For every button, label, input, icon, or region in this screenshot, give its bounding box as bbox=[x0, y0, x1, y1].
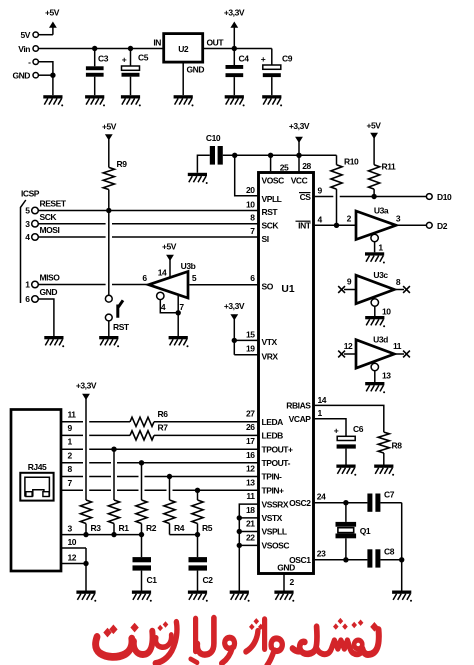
wire 5V terminal to +5V arrow bbox=[38, 34, 53, 36]
svg-text:+5V: +5V bbox=[45, 8, 60, 18]
ground C1 bbox=[132, 591, 152, 602]
svg-text:OSC2: OSC2 bbox=[289, 498, 311, 508]
wire RJ45 pin 3 center-tap line bbox=[61, 534, 142, 536]
ground input GND bbox=[43, 95, 63, 106]
wire U3a output to D2 bbox=[396, 224, 426, 226]
svg-text:14: 14 bbox=[158, 267, 167, 277]
U1 INT label with overline bbox=[296, 221, 312, 231]
node +3,3V at VTX/VRX bbox=[224, 301, 245, 355]
node 5V terminal bbox=[21, 30, 39, 40]
wire VPLL drop (pin 20) bbox=[235, 155, 259, 195]
ground crystal section bbox=[392, 591, 412, 602]
resistor R3 bbox=[80, 500, 101, 535]
node Vin terminal bbox=[18, 44, 38, 54]
junction OSC1/Q1 bbox=[343, 557, 348, 562]
svg-text:SCK: SCK bbox=[262, 220, 280, 230]
node +5V above R11 bbox=[366, 121, 381, 165]
no-connect U3d input bbox=[338, 351, 345, 358]
svg-text:27: 27 bbox=[246, 409, 255, 419]
svg-text:GND: GND bbox=[187, 64, 205, 74]
IC U1 (ENC28J60) body bbox=[259, 173, 314, 574]
svg-text:RST: RST bbox=[262, 207, 279, 217]
svg-text:+5V: +5V bbox=[162, 242, 177, 252]
U1 right pin labels bbox=[286, 176, 311, 565]
junction rail/VPLL bbox=[232, 153, 237, 158]
svg-text:3: 3 bbox=[25, 219, 30, 229]
svg-text:14: 14 bbox=[318, 395, 327, 405]
svg-text:C9: C9 bbox=[282, 53, 293, 63]
svg-text:VSTX: VSTX bbox=[262, 513, 283, 523]
svg-text:3: 3 bbox=[396, 214, 401, 224]
svg-text:R4: R4 bbox=[174, 523, 185, 533]
wire ICSP GND to ground bbox=[38, 299, 54, 336]
op-amp buffer U3c (unused) bbox=[344, 270, 404, 304]
svg-text:SI: SI bbox=[262, 234, 269, 244]
svg-text:+: + bbox=[122, 54, 127, 64]
svg-text:C6: C6 bbox=[353, 424, 364, 434]
wire VSOSC stub bbox=[239, 544, 258, 546]
capacitor C1 bbox=[133, 535, 158, 591]
svg-text:11: 11 bbox=[393, 341, 402, 351]
junction Vin/C5 bbox=[128, 46, 133, 51]
capacitor C5 (electrolytic) bbox=[122, 49, 149, 96]
connector ICSP bracket bbox=[21, 189, 40, 304]
svg-text:R8: R8 bbox=[392, 441, 403, 451]
resistor R9 bbox=[103, 159, 127, 190]
svg-text:23: 23 bbox=[317, 549, 326, 559]
svg-text:D2: D2 bbox=[437, 221, 448, 231]
svg-text:18: 18 bbox=[246, 505, 255, 515]
svg-text:C10: C10 bbox=[206, 133, 221, 143]
wire U3d OE to ground bbox=[375, 371, 391, 383]
no-connect U3c input bbox=[338, 286, 345, 293]
svg-text:8: 8 bbox=[250, 213, 255, 223]
pin bubble U3b OE (pin 4) bbox=[157, 292, 164, 299]
svg-text:+5V: +5V bbox=[102, 122, 117, 132]
wire OSC2 row bbox=[315, 502, 368, 504]
svg-text:7: 7 bbox=[250, 226, 255, 236]
ground U3d bbox=[365, 382, 385, 393]
svg-text:+5V: +5V bbox=[366, 121, 381, 131]
svg-text:2: 2 bbox=[290, 577, 295, 587]
capacitor C3 bbox=[86, 49, 109, 96]
ground VSS bus bbox=[230, 591, 250, 602]
svg-text:4: 4 bbox=[318, 214, 323, 224]
junction pin3/R2/C1 bbox=[139, 532, 144, 537]
node D2 terminal bbox=[426, 221, 447, 231]
op-amp buffer U3a bbox=[347, 206, 401, 240]
crystal Q1 bbox=[336, 503, 371, 560]
svg-text:SO: SO bbox=[262, 281, 274, 291]
svg-text:GND: GND bbox=[277, 563, 295, 573]
node ICSP pin 3 SCK bbox=[25, 212, 57, 229]
resistor R2 bbox=[136, 463, 157, 535]
svg-text:10: 10 bbox=[246, 199, 255, 209]
svg-text:22: 22 bbox=[246, 532, 255, 542]
wire VCAP to C6 bbox=[315, 419, 346, 437]
svg-text:5V: 5V bbox=[21, 30, 31, 40]
svg-text:VCC: VCC bbox=[291, 176, 308, 186]
U1 GND bottom label bbox=[277, 563, 295, 573]
svg-text:5: 5 bbox=[25, 206, 30, 216]
ground C3 bbox=[85, 95, 105, 106]
junction R11/D10 line bbox=[371, 194, 376, 199]
node +5V top-left power label bbox=[45, 8, 60, 35]
U1 right pin numbers bbox=[317, 186, 327, 559]
svg-text:6: 6 bbox=[250, 273, 255, 283]
svg-text:VOSC: VOSC bbox=[262, 176, 285, 186]
push button RST bbox=[105, 295, 130, 332]
junction R5/C2 bbox=[195, 532, 200, 537]
resistor R6 bbox=[130, 409, 168, 427]
resistor R11 bbox=[369, 162, 396, 197]
svg-text:4: 4 bbox=[25, 232, 30, 242]
ground U3c bbox=[365, 316, 385, 327]
svg-text:IN: IN bbox=[153, 38, 161, 48]
svg-text:VSPLL: VSPLL bbox=[262, 527, 287, 537]
wire R4-R5 tap line bbox=[170, 534, 198, 536]
svg-text:8: 8 bbox=[396, 277, 401, 287]
svg-text:R10: R10 bbox=[344, 157, 359, 167]
svg-text:VPLL: VPLL bbox=[262, 194, 282, 204]
U1 designator bbox=[281, 284, 294, 295]
svg-text:19: 19 bbox=[246, 343, 255, 353]
wire U3b output to U1 SO bbox=[189, 284, 258, 286]
svg-text:R7: R7 bbox=[158, 423, 169, 433]
svg-text:U2: U2 bbox=[178, 44, 189, 54]
pin bubble U3d OE (pin 13) bbox=[371, 363, 378, 370]
wire OSC1 row bbox=[315, 559, 368, 561]
svg-text:U1: U1 bbox=[281, 284, 294, 295]
junction Vin/C3 bbox=[92, 46, 97, 51]
node +3,3V top bbox=[224, 8, 245, 49]
pin bubble U3a OE (pin 1) bbox=[371, 234, 378, 241]
junction R9/RESET bbox=[106, 208, 111, 213]
wire RBIAS to R8 bbox=[315, 405, 384, 432]
wire U3a OE to ground bbox=[375, 242, 384, 253]
svg-text:VTX: VTX bbox=[262, 337, 278, 347]
wire U2 GND to ground bbox=[183, 62, 204, 95]
U1 CS label with overline bbox=[299, 192, 311, 202]
ground U3a bbox=[365, 252, 385, 263]
wire crystal branch to ground bbox=[401, 560, 403, 591]
wire button to ground bbox=[108, 321, 110, 336]
svg-text:1: 1 bbox=[68, 437, 73, 447]
node minus terminal bbox=[28, 57, 38, 67]
svg-text:SCK: SCK bbox=[40, 212, 58, 222]
resistor R8 bbox=[378, 432, 402, 464]
svg-text:VSSRX: VSSRX bbox=[262, 499, 289, 509]
svg-text:10: 10 bbox=[68, 537, 77, 547]
resistor R1 bbox=[108, 449, 129, 534]
wire VTX stub bbox=[234, 339, 258, 341]
wire MOSI/SI line (hops R9 vertical) bbox=[38, 236, 105, 238]
ground RJ45 shield bbox=[76, 591, 96, 602]
ground C10 bbox=[188, 173, 208, 184]
svg-text:28: 28 bbox=[302, 161, 311, 171]
svg-text:1: 1 bbox=[25, 280, 30, 290]
svg-text:VCAP: VCAP bbox=[289, 414, 312, 424]
capacitor C4 bbox=[226, 49, 250, 96]
svg-text:13: 13 bbox=[382, 371, 391, 381]
junction +3.3V/VTX bbox=[232, 338, 237, 343]
RJ45 jack icon bbox=[20, 473, 53, 501]
capacitor C7 bbox=[367, 490, 401, 512]
wire INT to U3a input bbox=[315, 224, 356, 226]
svg-text:12: 12 bbox=[68, 553, 77, 563]
resistor R7 bbox=[130, 423, 168, 440]
svg-text:17: 17 bbox=[246, 436, 255, 446]
wire LEDB row with R7 bbox=[61, 434, 83, 436]
wire TPIN- row bbox=[61, 476, 83, 478]
wire LEDA row with R6 bbox=[61, 421, 83, 423]
svg-text:TPOUT-: TPOUT- bbox=[262, 458, 291, 468]
U1 top pin labels bbox=[280, 161, 312, 172]
op-amp buffer U3b (74x125 gate, output pin 6 left) bbox=[142, 261, 197, 298]
ground C4 bbox=[225, 95, 245, 106]
svg-text:4: 4 bbox=[161, 302, 166, 312]
junction VSOSC/bus bbox=[237, 543, 242, 548]
wire TPIN+ row bbox=[61, 489, 83, 491]
svg-text:C2: C2 bbox=[203, 575, 214, 585]
svg-text:C7: C7 bbox=[384, 490, 395, 500]
svg-text:VRX: VRX bbox=[262, 352, 279, 362]
svg-text:12: 12 bbox=[246, 464, 255, 474]
wire RESET junction down to push button bbox=[108, 211, 110, 296]
wire VRX stub bbox=[234, 354, 258, 356]
junction C8/ground branch bbox=[399, 557, 404, 562]
capacitor C9 (electrolytic) bbox=[261, 49, 293, 96]
wire GND terminal to ground bbox=[38, 74, 53, 76]
svg-text:7: 7 bbox=[179, 302, 184, 312]
svg-text:RESET: RESET bbox=[40, 199, 67, 209]
no-connect U3d output bbox=[403, 351, 410, 358]
capacitor C6 (electrolytic) bbox=[334, 424, 364, 465]
svg-text:10: 10 bbox=[382, 307, 391, 317]
wire MISO line to U3b output (hops button vertical) bbox=[38, 284, 105, 286]
wire C7 right down to C8 bbox=[401, 503, 403, 560]
wire VSSRX stub bbox=[239, 504, 258, 590]
capacitor C8 bbox=[367, 547, 401, 568]
svg-text:R6: R6 bbox=[158, 409, 169, 419]
svg-text:RJ45: RJ45 bbox=[28, 462, 47, 472]
svg-text:+: + bbox=[261, 54, 266, 64]
svg-text:U3a: U3a bbox=[374, 206, 389, 216]
svg-text:9: 9 bbox=[318, 186, 323, 196]
svg-text:C1: C1 bbox=[147, 575, 158, 585]
svg-text:LEDA: LEDA bbox=[262, 417, 284, 427]
svg-text:R2: R2 bbox=[146, 523, 157, 533]
svg-text:1: 1 bbox=[318, 408, 323, 418]
junction OUT/C4 bbox=[232, 46, 237, 51]
svg-text:+3,3V: +3,3V bbox=[224, 8, 245, 18]
junction rail/pin25 bbox=[268, 153, 273, 158]
resistor R10 bbox=[331, 155, 359, 225]
RJ45 pin numbers bbox=[68, 409, 77, 562]
wire CS to D10 (hops R10 vertical) bbox=[315, 196, 334, 198]
wire SCK line (hops R9 vertical) bbox=[38, 223, 105, 225]
svg-text:D10: D10 bbox=[437, 192, 452, 202]
junction TPIN-/R4 bbox=[167, 474, 172, 479]
junction pin3/R1 bbox=[111, 532, 116, 537]
svg-text:R3: R3 bbox=[91, 523, 102, 533]
svg-text:C4: C4 bbox=[239, 53, 250, 63]
svg-text:9: 9 bbox=[68, 423, 73, 433]
svg-text:RST: RST bbox=[113, 322, 130, 332]
op-amp buffer U3d (unused) bbox=[344, 335, 404, 369]
svg-text:U3c: U3c bbox=[373, 270, 388, 280]
node ICSP pin 1 MISO bbox=[25, 273, 60, 290]
svg-text:25: 25 bbox=[280, 162, 289, 172]
resistor R5 bbox=[192, 490, 213, 534]
svg-text:+3,3V: +3,3V bbox=[76, 381, 97, 391]
connector RJ45 body bbox=[11, 410, 61, 572]
ground U2 bbox=[174, 95, 194, 106]
svg-text:U3b: U3b bbox=[181, 261, 196, 271]
svg-text:CS: CS bbox=[300, 192, 312, 202]
svg-text:Q1: Q1 bbox=[360, 526, 371, 536]
junction TPIN+/R5 bbox=[195, 488, 200, 493]
svg-text:1: 1 bbox=[378, 243, 383, 253]
svg-text:OUT: OUT bbox=[207, 38, 225, 48]
svg-text:MISO: MISO bbox=[40, 273, 61, 283]
RJ45 label bbox=[28, 462, 47, 472]
wire RJ45 pin 10/12 to ground bbox=[61, 547, 86, 549]
node ICSP pin 5 RESET bbox=[25, 199, 67, 216]
svg-text:13: 13 bbox=[246, 477, 255, 487]
svg-text:R11: R11 bbox=[382, 162, 396, 172]
ground R8 bbox=[374, 465, 394, 476]
junction VSTX/bus bbox=[237, 515, 242, 520]
svg-text:GND: GND bbox=[12, 71, 30, 81]
svg-text:3: 3 bbox=[68, 524, 73, 534]
junction VSPLL/bus bbox=[237, 529, 242, 534]
wire +3.3V rail above U1 bbox=[223, 154, 337, 156]
svg-text:GND: GND bbox=[40, 287, 58, 297]
svg-text:R5: R5 bbox=[202, 523, 213, 533]
svg-text:TPIN-: TPIN- bbox=[262, 472, 283, 482]
svg-text:ICSP: ICSP bbox=[21, 189, 40, 199]
svg-text:TPOUT+: TPOUT+ bbox=[262, 444, 294, 454]
ground ICSP GND bbox=[44, 336, 64, 347]
ground U3b bbox=[169, 336, 189, 347]
svg-text:6: 6 bbox=[25, 294, 30, 304]
node +5V above U3b bbox=[162, 242, 177, 278]
svg-text:24: 24 bbox=[317, 492, 326, 502]
node GND terminal bbox=[12, 71, 38, 81]
capacitor C10 bbox=[197, 133, 222, 173]
svg-text:9: 9 bbox=[347, 277, 352, 287]
svg-text:+3,3V: +3,3V bbox=[289, 121, 310, 131]
wire TPOUT- row bbox=[61, 462, 83, 464]
svg-text:R1: R1 bbox=[119, 523, 130, 533]
svg-text:C3: C3 bbox=[98, 53, 109, 63]
no-connect U3c output bbox=[403, 286, 410, 293]
wire U3c OE to ground bbox=[375, 306, 391, 316]
wire VSPLL stub bbox=[239, 531, 258, 533]
svg-text:12: 12 bbox=[344, 341, 353, 351]
wire R9 to RESET line bbox=[108, 190, 110, 211]
wire VSTX stub bbox=[239, 517, 258, 519]
svg-text:26: 26 bbox=[246, 422, 255, 432]
svg-text:7: 7 bbox=[68, 478, 73, 488]
svg-text:MOSI: MOSI bbox=[40, 225, 60, 235]
svg-text:+3,3V: +3,3V bbox=[224, 301, 245, 311]
wire RESET line bbox=[38, 210, 258, 212]
svg-text:20: 20 bbox=[246, 185, 255, 195]
svg-text:5: 5 bbox=[192, 273, 197, 283]
node +5V above R9 bbox=[102, 122, 117, 168]
junction pin3/R3 bbox=[83, 532, 88, 537]
regulator U2 bbox=[153, 34, 224, 63]
svg-text:INT: INT bbox=[298, 221, 312, 231]
svg-text:C5: C5 bbox=[138, 52, 149, 62]
node +3,3V above RJ45 network bbox=[76, 381, 97, 501]
capacitor C2 bbox=[189, 535, 214, 591]
svg-text:6: 6 bbox=[142, 273, 147, 283]
svg-text:2: 2 bbox=[68, 450, 73, 460]
svg-text:R9: R9 bbox=[117, 159, 128, 169]
pin bubble U3c OE (pin 10) bbox=[371, 299, 378, 306]
wire pin 25 bbox=[270, 155, 272, 172]
svg-text:15: 15 bbox=[246, 329, 255, 339]
junction pin12/bracket bbox=[83, 561, 88, 566]
wire U1 GND pin 2 bbox=[284, 574, 295, 591]
wire Vin rail to U2 IN bbox=[38, 48, 163, 50]
wire TPOUT+ row bbox=[61, 448, 83, 450]
node D10 terminal bbox=[426, 192, 452, 202]
junction TPOUT-/R2 bbox=[139, 460, 144, 465]
ground C6 bbox=[336, 465, 356, 476]
svg-text:LEDB: LEDB bbox=[262, 431, 284, 441]
svg-text:16: 16 bbox=[246, 450, 255, 460]
title: red Persian text "naqshe mazhul eternet" (Ethernet module schematic) bbox=[96, 618, 379, 665]
svg-text:U3d: U3d bbox=[373, 335, 388, 345]
node +3,3V above VCC bbox=[289, 121, 310, 173]
junction rail/pin28 bbox=[296, 153, 301, 158]
svg-text:RBIAS: RBIAS bbox=[286, 401, 311, 411]
resistor R4 bbox=[164, 477, 185, 535]
svg-text:TPIN+: TPIN+ bbox=[262, 486, 285, 496]
ground RST button bbox=[99, 336, 119, 347]
junction OSC2/Q1 bbox=[343, 500, 348, 505]
svg-text:8: 8 bbox=[68, 464, 73, 474]
junction TPOUT+/R1 bbox=[111, 447, 116, 452]
svg-text:11: 11 bbox=[246, 491, 255, 501]
svg-text:2: 2 bbox=[347, 214, 352, 224]
ground U1 bbox=[274, 591, 294, 602]
svg-text:Vin: Vin bbox=[18, 44, 30, 54]
ground C9 bbox=[262, 95, 282, 106]
wire U2 OUT rail bbox=[203, 48, 272, 50]
ground C5 bbox=[121, 95, 141, 106]
svg-text:21: 21 bbox=[246, 519, 255, 529]
node ICSP pin 4 MOSI bbox=[25, 225, 59, 242]
svg-text:VSOSC: VSOSC bbox=[262, 541, 290, 551]
svg-text:11: 11 bbox=[68, 409, 77, 419]
U1 left pin numbers bbox=[246, 185, 255, 543]
ground C2 bbox=[188, 591, 208, 602]
svg-text:C8: C8 bbox=[384, 547, 395, 557]
node ICSP pin 6 GND bbox=[25, 287, 57, 304]
wire U3b OE to pin7/ground bbox=[160, 295, 184, 336]
U1 left pin labels bbox=[262, 176, 294, 551]
svg-text:+: + bbox=[334, 426, 339, 436]
wire minus to GND junction bbox=[38, 62, 53, 75]
junction R10/INT bbox=[334, 223, 339, 228]
